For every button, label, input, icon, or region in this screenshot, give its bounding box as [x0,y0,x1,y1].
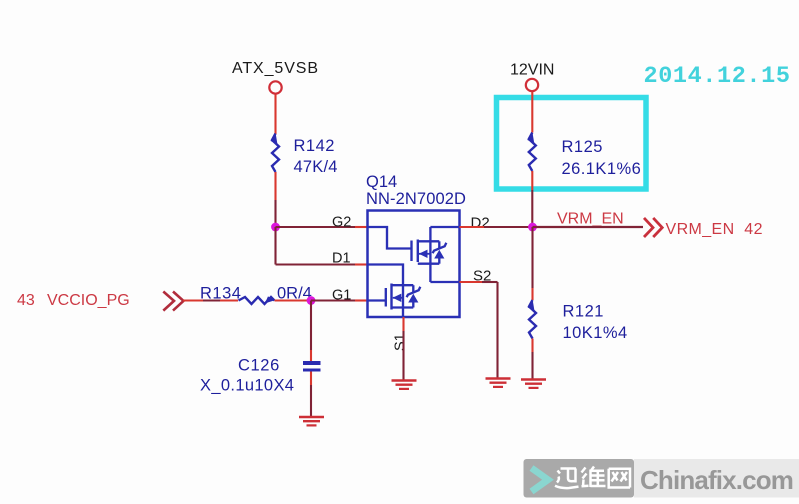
wire node C to R121 [531,227,533,300]
wire R142 to node A [274,172,276,227]
resistor R142 [271,134,338,177]
wire R134 to node B [275,299,312,301]
svg-text:Chinafix.com: Chinafix.com [640,465,793,495]
char XUN [555,469,579,489]
svg-text:VRM_EN: VRM_EN [557,211,624,228]
svg-text:26.1K1%6: 26.1K1%6 [562,160,642,178]
ground (S2) [486,379,511,387]
net label VRM_EN [557,211,624,228]
svg-text:D1: D1 [332,251,351,267]
svg-text:C126: C126 [238,357,280,375]
node A junction [271,223,280,232]
svg-text:R125: R125 [562,138,603,156]
power terminal 12VIN [510,62,554,92]
body arrow [419,253,430,255]
watermark logo bar [524,459,799,498]
svg-text:47K/4: 47K/4 [294,158,338,176]
pin label D1 [332,251,351,267]
body diode [438,241,440,248]
pin label D2 [471,215,490,232]
svg-text:ATX_5VSB: ATX_5VSB [232,60,319,77]
svg-text:R142: R142 [294,137,335,155]
power terminal ATX_5VSB [232,60,319,94]
char WANG [609,469,630,488]
svg-text:X_0.1u10X4: X_0.1u10X4 [200,377,294,395]
wire 12VIN to R125 [531,92,533,133]
mosfet upper (FET2) inside Q14 [368,227,460,282]
wire node A to Q14 pin G2 [276,226,368,228]
svg-text:G2: G2 [332,215,351,231]
transistor Q14 body box [366,173,466,317]
resistor R134 [200,285,312,305]
off-page connector VRM_EN 42 [644,218,763,238]
date text 2014.12.15 [644,63,791,90]
ground (R121) [521,380,546,388]
wire node B to Q14 pin G1 [311,299,368,301]
wire node B to C126 [310,301,312,362]
capacitor C126 [200,357,321,395]
svg-text:R134: R134 [200,285,241,303]
body diode [412,285,414,293]
D1 internal path + riser to S1 [368,265,403,318]
pin label S1 (rotated) [393,333,409,351]
svg-text:VRM_EN 42: VRM_EN 42 [666,221,763,238]
svg-text:NN-2N7002D: NN-2N7002D [366,190,466,208]
mosfet lower (FET1) inside Q14 [368,265,420,318]
svg-text:43: 43 [17,292,35,309]
wire node C to VRM_EN connector [533,226,644,228]
svg-text:VCCIO_PG: VCCIO_PG [47,292,130,309]
wire ATX_5VSB to R142 (pin) [274,95,276,135]
svg-text:D2: D2 [471,215,490,232]
wire S2 to ground [460,282,498,379]
node C junction [528,223,537,232]
pin label G1 [332,288,351,304]
highlight box around R125 [497,98,647,190]
svg-text:12VIN: 12VIN [510,62,554,79]
off-page connector 43 VCCIO_PG [17,292,184,311]
ground (S1) [392,381,417,389]
wire node A to Q14 pin D1 [276,227,368,265]
G2 internal path [368,227,411,249]
resistor R125 [527,133,641,179]
char WEI [582,467,606,488]
wire S1 to ground [402,317,404,381]
resistor R121 [528,300,628,342]
body arrow [393,297,403,299]
logo text Chinafix.com [640,465,793,495]
node B junction [307,296,316,305]
wire VCCIO_PG to R134 [183,299,238,301]
logo text 迅维网 (approximated strokes) [555,467,630,489]
svg-text:2014.12.15: 2014.12.15 [644,63,791,90]
wire D2 to node C [460,226,533,228]
wire C126 to ground [310,372,312,418]
pin label G2 [332,215,351,231]
wire R121 to ground [531,339,533,380]
svg-text:S1: S1 [393,333,409,351]
wire R125 to node C [531,171,533,227]
ground (C126) [299,417,324,425]
svg-text:Q14: Q14 [366,173,397,191]
svg-text:R121: R121 [563,303,604,321]
pin label S2 [473,268,491,285]
svg-text:10K1%4: 10K1%4 [563,324,628,342]
logo chevron [532,468,549,492]
